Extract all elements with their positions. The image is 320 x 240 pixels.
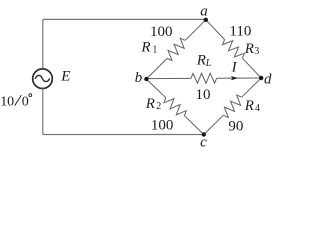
node d (junction dot)	[259, 76, 263, 80]
svg-text:R: R	[244, 41, 254, 57]
svg-text:110: 110	[229, 24, 251, 40]
node b (junction dot)	[144, 77, 148, 81]
svg-text:a: a	[200, 3, 208, 19]
label I (current)	[231, 59, 238, 75]
wire: R4 lead to node c	[204, 115, 224, 134]
resistor RL (load)	[191, 73, 217, 83]
svg-text:0: 0	[22, 95, 29, 110]
label R4	[244, 98, 260, 114]
wire: left vertical lower (source bottom to corner)	[42, 89, 44, 135]
label d	[264, 72, 272, 88]
value 100 (R1)	[150, 24, 173, 40]
wire: R1 lead to node b	[146, 59, 167, 80]
label a	[200, 3, 208, 19]
label R1	[140, 39, 157, 55]
resistor R1	[167, 38, 185, 60]
wire: node b to RL lead	[146, 77, 191, 79]
svg-text:R: R	[196, 53, 206, 69]
svg-text:4: 4	[255, 103, 260, 114]
label b	[135, 70, 143, 86]
svg-text:100: 100	[150, 24, 173, 40]
label RL	[196, 53, 212, 69]
svg-text:2: 2	[156, 101, 161, 112]
svg-text:b: b	[135, 70, 143, 86]
wire: R3 lead to node d	[242, 58, 261, 78]
svg-text:R: R	[140, 39, 150, 55]
svg-text:90: 90	[228, 118, 243, 134]
svg-text:L: L	[205, 58, 212, 69]
AC source E (sinusoidal source symbol)	[33, 69, 53, 89]
svg-text:R: R	[145, 96, 155, 112]
resistor R4	[223, 95, 241, 117]
wire: RL lead to node d (carries current I)	[217, 77, 262, 79]
svg-text:I: I	[231, 59, 238, 75]
svg-text:R: R	[244, 98, 254, 114]
label c	[200, 135, 207, 151]
current arrow I (pointing right toward node d)	[231, 76, 238, 80]
wire: bottom from left corner to node c	[43, 134, 204, 136]
wire: node a to R1 lead	[185, 20, 206, 41]
label R3	[244, 41, 260, 57]
value 110 (R3)	[229, 24, 251, 40]
resistor R3	[223, 40, 245, 59]
wire: left vertical upper (corner to source top)	[42, 19, 44, 69]
svg-text:10: 10	[196, 87, 211, 103]
svg-text:1: 1	[152, 45, 157, 56]
label 10 angle 0 deg (source phasor value)	[0, 94, 31, 110]
label R2	[145, 96, 162, 112]
svg-text:10: 10	[0, 95, 14, 110]
wire: node b to R2 lead	[146, 79, 165, 98]
svg-text:c: c	[200, 135, 207, 151]
label E (source name)	[60, 69, 70, 85]
wire: R2 lead to node c	[184, 116, 203, 135]
wire: node d to R4 lead	[242, 78, 262, 97]
node a (junction dot)	[204, 18, 208, 22]
wire: node a to R3 lead	[206, 20, 225, 40]
svg-text:d: d	[264, 72, 272, 88]
value 100 (R2)	[151, 117, 174, 133]
svg-text:100: 100	[151, 117, 174, 133]
node c (junction dot)	[202, 132, 206, 136]
value 10 (RL)	[196, 87, 211, 103]
value 90 (R4)	[228, 118, 243, 134]
wire: top from left corner to node a	[43, 18, 206, 20]
svg-text:E: E	[60, 69, 70, 85]
svg-text:3: 3	[254, 46, 259, 57]
resistor R2	[164, 98, 186, 116]
